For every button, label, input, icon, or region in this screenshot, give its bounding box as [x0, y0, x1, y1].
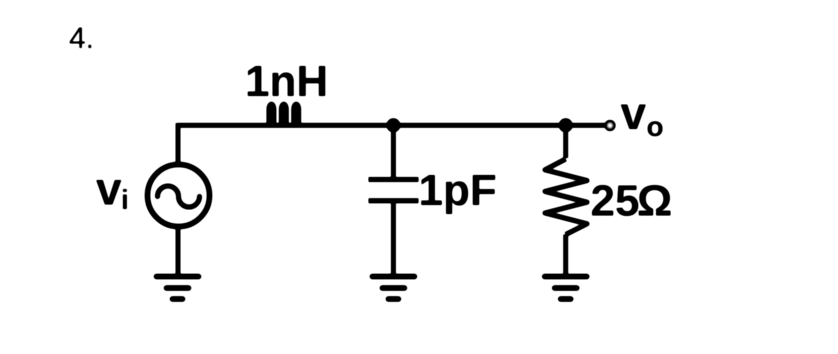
node junction dot (resistor branch): [559, 118, 573, 132]
capacitor C1: [369, 180, 419, 201]
source vi U1: [148, 165, 210, 227]
wire: cap bottom vertical: [391, 203, 396, 276]
inductor L1: [269, 104, 299, 127]
node junction dot (cap branch): [386, 118, 400, 132]
svg-text:i: i: [121, 184, 129, 215]
wire: top horizontal rail: [178, 123, 605, 128]
svg-text:Ω: Ω: [637, 176, 672, 225]
wire: resistor bottom vertical: [563, 235, 568, 277]
ground under capacitor: [372, 277, 414, 300]
svg-text:25: 25: [591, 176, 640, 225]
sine wave inside source: [158, 186, 200, 207]
resistor R1: [545, 159, 587, 235]
wire: source bottom vertical: [176, 227, 181, 277]
svg-text:v: v: [621, 87, 647, 139]
svg-text:4.: 4.: [69, 22, 94, 55]
svg-text:o: o: [647, 111, 664, 142]
wire: source top vertical: [176, 123, 181, 165]
output terminal circle: [606, 122, 614, 130]
ground under resistor: [545, 277, 587, 300]
wire: resistor top vertical: [563, 125, 568, 158]
svg-text:v: v: [96, 163, 122, 215]
ground under source: [157, 277, 199, 300]
wire: cap top vertical: [391, 125, 396, 177]
svg-text:1nH: 1nH: [245, 57, 328, 106]
svg-text:1pF: 1pF: [419, 166, 497, 215]
